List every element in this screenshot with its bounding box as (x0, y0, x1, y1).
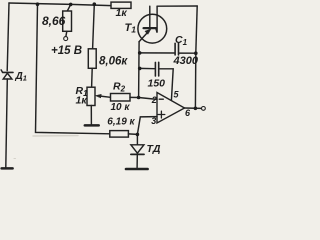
terminal output circle (202, 107, 206, 111)
svg-text:1к: 1к (76, 95, 88, 107)
wire: top rail left segment (9, 3, 111, 6)
diode D1 (zener) (3, 71, 13, 73)
transistor T1 collector lead (156, 6, 157, 32)
diode TD triangle (131, 145, 144, 153)
node dot pin3-TD (136, 133, 140, 137)
resistor 8,66 body (63, 11, 72, 31)
capacitor 150 plates (154, 62, 156, 76)
wire: left edge vertical (7, 3, 9, 71)
resistor 8,66 lead bottom (65, 31, 68, 36)
transistor T1 emitter arrow (145, 29, 151, 34)
capacitor C1 plates (174, 43, 176, 55)
wire: left edge lower (6, 79, 8, 167)
node dot emitter-C1 (138, 51, 142, 55)
svg-text:+15 В: +15 В (51, 45, 82, 57)
scan smudge 1 (33, 135, 78, 137)
node dot top rail 2 (69, 3, 73, 7)
wire: C1 to right rail (179, 52, 196, 54)
node dot pin2 (137, 96, 141, 100)
op-amp U1 triangle (157, 93, 185, 124)
wire: collector to top right corner (157, 5, 197, 7)
resistor R1 body (87, 87, 95, 105)
svg-text:Т1: Т1 (125, 22, 137, 35)
resistor R2 body (111, 94, 131, 102)
resistor 1k body (111, 2, 131, 8)
wire: R2 right to node (130, 96, 139, 98)
svg-text:8,06к: 8,06к (99, 56, 128, 68)
wire: 6,19k right lead (128, 133, 137, 136)
node dot C1-rail (194, 51, 198, 55)
wire: C1 wire from emitter node (140, 52, 175, 54)
diode TD bar (131, 153, 144, 155)
resistor 6,19k body (110, 131, 129, 138)
svg-text:Д1: Д1 (15, 71, 27, 83)
wire: op-amp pin3 (137, 117, 157, 135)
terminal +15V circle (64, 37, 68, 41)
svg-text:ТД: ТД (147, 143, 161, 155)
svg-text:3: 3 (151, 116, 156, 126)
svg-text:1к: 1к (116, 7, 128, 19)
transistor T1 emitter lead (139, 32, 148, 42)
ground bar bottom-left (2, 167, 13, 170)
wire: TD to ground (136, 155, 138, 167)
scan smudge 2 (14, 158, 16, 160)
node dot emitter-150 (138, 67, 142, 71)
wire: 8,06k chain lead (93, 4, 95, 49)
wire: R1 bottom lead (90, 106, 92, 125)
svg-text:150: 150 (148, 77, 166, 89)
node dot output (194, 107, 198, 111)
wire: second vertical (36, 4, 110, 134)
wire: R1 wiper to R2 (100, 96, 111, 97)
wire: emitter vertical (138, 42, 141, 98)
resistor 8,66 lead top (67, 4, 70, 11)
transistor T1 base lead (149, 6, 151, 27)
arrowhead of R1 wiper (96, 94, 102, 98)
wire: node to op-amp pin2 (139, 98, 157, 100)
resistor 8,06k body (88, 49, 96, 69)
wire: 150 cap to op-amp pin5 (159, 69, 173, 101)
svg-text:4300: 4300 (173, 55, 199, 67)
svg-text:10 к: 10 к (111, 102, 131, 113)
ground bar under R1 (85, 124, 99, 127)
ground bar under TD (126, 168, 148, 171)
node dot top rail 1 (36, 2, 40, 6)
wire: node to tunnel diode (136, 134, 138, 144)
paper background (0, 0, 206, 175)
node dot top rail 3 (93, 2, 97, 6)
wire: op-amp output (185, 107, 202, 109)
wire: 150 cap wire from emitter node (140, 67, 155, 69)
transistor T1 circle (138, 14, 167, 43)
op-amp plus sign (158, 111, 165, 118)
op-amp minus sign (159, 98, 163, 100)
transistor T1 base bar (144, 27, 157, 29)
wire: right rail (195, 6, 197, 108)
svg-text:6,19 к: 6,19 к (107, 117, 135, 128)
svg-text:8,66: 8,66 (42, 14, 66, 28)
wire: between 8,06k and R1 (91, 68, 94, 87)
svg-text:2: 2 (151, 95, 157, 105)
